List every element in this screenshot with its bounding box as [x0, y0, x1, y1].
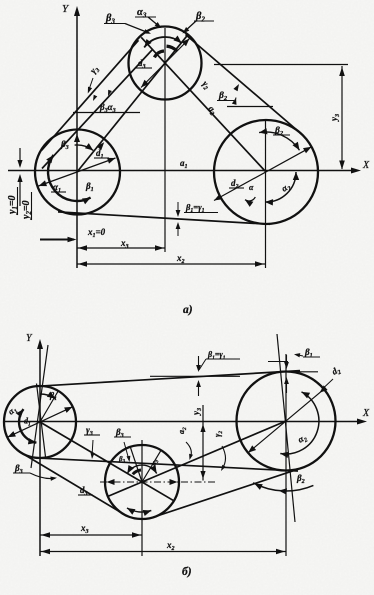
- svg-text:а): а): [183, 304, 193, 316]
- svg-text:X: X: [362, 160, 370, 171]
- svg-text:X: X: [362, 408, 370, 419]
- svg-text:α: α: [249, 183, 254, 192]
- svg-text:б): б): [182, 566, 192, 578]
